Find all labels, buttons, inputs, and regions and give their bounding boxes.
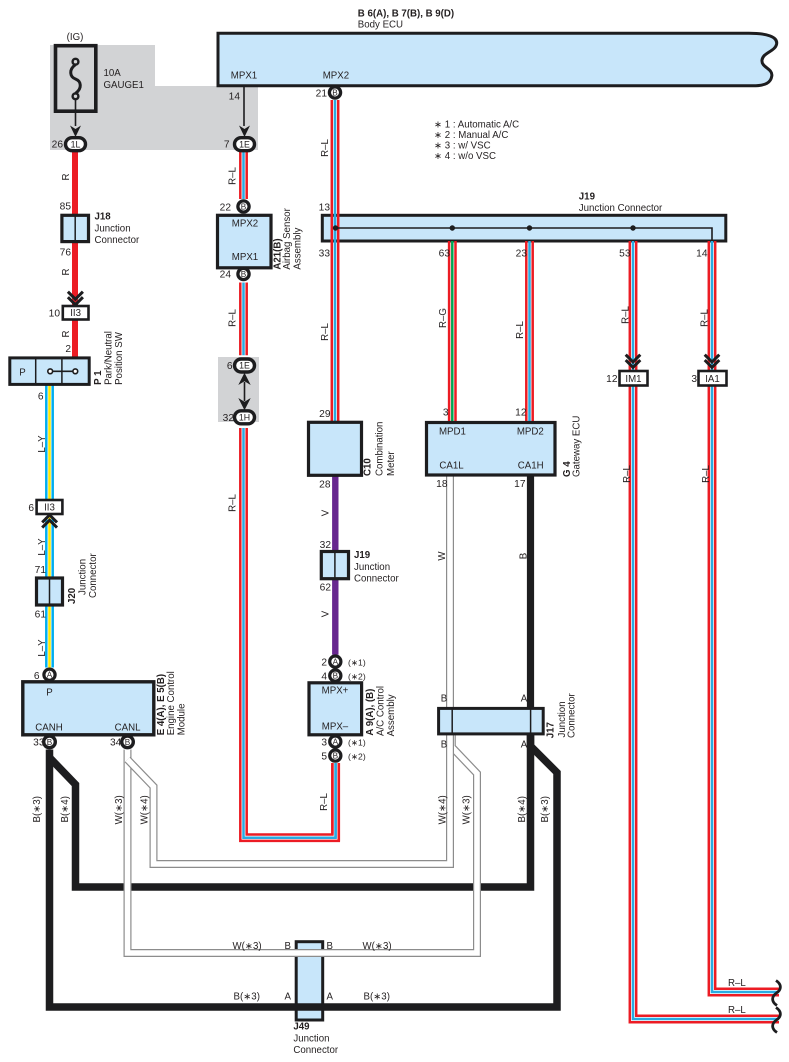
oval connector 1L — [66, 138, 86, 151]
svg-text:Meter: Meter — [386, 450, 397, 476]
a/c control assembly A9 box — [309, 683, 362, 735]
wire W gateway CA1L to J17 — [446, 476, 454, 708]
svg-text:Junction: Junction — [354, 562, 390, 573]
wire R-L J19 14 to IA1 — [709, 241, 715, 371]
svg-text:CA1L: CA1L — [439, 460, 464, 471]
svg-text:B: B — [327, 941, 333, 952]
svg-text:P: P — [46, 688, 52, 699]
svg-text:Junction Connector: Junction Connector — [579, 203, 663, 214]
svg-text:L–Y: L–Y — [37, 435, 48, 453]
svg-text:63: 63 — [439, 249, 451, 260]
svg-text:J49: J49 — [293, 1022, 310, 1033]
svg-text:R: R — [61, 331, 72, 338]
page break squiggle lower R-L — [773, 1008, 781, 1033]
svg-text:4: 4 — [321, 672, 327, 683]
page break squiggle upper R-L — [773, 981, 781, 1006]
junction dot 23 — [527, 225, 532, 230]
pin circle B body ECU 21 — [329, 87, 340, 98]
svg-text:B 6(A), B 7(B), B 9(D): B 6(A), B 7(B), B 9(D) — [358, 9, 454, 20]
wire R-L J19 23 to gateway MPD2 pin 12 — [526, 241, 532, 422]
svg-text:A: A — [521, 694, 528, 705]
wire R-L body ECU 21B through J19 to C10 pin 29 — [332, 100, 338, 422]
oval connector 1H — [235, 411, 255, 424]
svg-text:II3: II3 — [44, 503, 55, 514]
svg-text:21: 21 — [316, 88, 328, 99]
svg-text:B(∗3): B(∗3) — [32, 796, 43, 822]
junction connector J18 box — [62, 215, 89, 241]
svg-text:Module: Module — [177, 704, 188, 736]
double chevron down to II3 — [68, 292, 83, 305]
park/neutral position switch P1 box — [10, 358, 89, 385]
wire R-L airbag 24B to 1E — [240, 283, 246, 356]
svg-text:GAUGE1: GAUGE1 — [104, 80, 144, 91]
svg-text:33: 33 — [33, 738, 45, 749]
wire W(*3) ECM 34 via J49 to J17 — [128, 734, 478, 953]
svg-text:1H: 1H — [239, 413, 250, 423]
svg-text:W(∗4): W(∗4) — [140, 795, 151, 824]
svg-text:R–L: R–L — [701, 465, 712, 483]
svg-text:R–L: R–L — [728, 1005, 746, 1016]
svg-text:(∗2): (∗2) — [348, 752, 366, 762]
svg-text:26: 26 — [52, 140, 64, 151]
svg-text:Junction: Junction — [78, 559, 89, 595]
svg-text:A: A — [333, 738, 339, 747]
wire R J18 to II3 — [72, 242, 78, 305]
svg-text:W(∗3): W(∗3) — [233, 941, 262, 952]
svg-text:Connector: Connector — [293, 1045, 338, 1056]
pin circle B ECM 33 — [44, 736, 56, 748]
svg-text:B: B — [441, 740, 447, 751]
body ECU pin 14 lead — [243, 86, 245, 126]
svg-text:II3: II3 — [70, 308, 81, 319]
pin circle A ECM 6 — [44, 669, 55, 680]
arrowhead into 1E — [239, 126, 250, 138]
engine control module box — [23, 682, 154, 735]
wire R fuse to J18 — [72, 151, 78, 215]
junction dot 53 — [630, 225, 635, 230]
svg-text:23: 23 — [516, 249, 528, 260]
svg-text:Junction: Junction — [293, 1034, 329, 1045]
svg-text:∗ 3 : w/ VSC: ∗ 3 : w/ VSC — [434, 141, 491, 152]
arrowhead into 1L — [70, 126, 81, 138]
switch contacts — [53, 370, 73, 372]
svg-text:MPD1: MPD1 — [439, 427, 466, 438]
svg-text:A 9(A), (B): A 9(A), (B) — [365, 689, 376, 736]
oval connector 1E lower — [235, 359, 255, 372]
svg-text:J20: J20 — [67, 588, 78, 604]
svg-text:MPD2: MPD2 — [517, 427, 544, 438]
svg-text:Park/Neutral: Park/Neutral — [103, 331, 114, 385]
svg-text:3: 3 — [321, 738, 327, 749]
svg-text:6: 6 — [227, 361, 233, 372]
pin circle A a/c 3 — [330, 736, 341, 747]
svg-text:Assembly: Assembly — [292, 227, 303, 269]
connector II3 box — [63, 306, 89, 320]
svg-text:14: 14 — [696, 249, 708, 260]
svg-text:A: A — [521, 740, 528, 751]
svg-text:L–Y: L–Y — [37, 538, 48, 556]
svg-text:B(∗3): B(∗3) — [540, 796, 551, 822]
svg-text:R–L: R–L — [621, 306, 632, 324]
double chevron into IA1 — [705, 355, 720, 368]
wire R-L A/C assembly MPX- stub — [332, 763, 338, 841]
pin circle B ECM 34 — [122, 736, 134, 748]
svg-text:MPX1: MPX1 — [231, 71, 257, 82]
svg-text:28: 28 — [319, 480, 331, 491]
svg-text:R: R — [61, 269, 72, 276]
svg-text:MPX2: MPX2 — [232, 219, 258, 230]
wire R II3 to P/N switch — [72, 320, 78, 358]
svg-text:Position SW: Position SW — [114, 331, 125, 385]
svg-text:22: 22 — [220, 202, 232, 213]
wire L-Y II3 to J20 — [46, 517, 52, 578]
svg-text:Combination: Combination — [375, 422, 386, 476]
svg-text:∗ 1 : Automatic A/C: ∗ 1 : Automatic A/C — [434, 120, 519, 131]
combination meter C10 box — [309, 422, 362, 475]
svg-text:12: 12 — [606, 374, 618, 385]
svg-text:R–G: R–G — [438, 308, 449, 328]
svg-text:R–L: R–L — [320, 139, 331, 157]
svg-text:12: 12 — [515, 408, 527, 419]
svg-text:13: 13 — [319, 203, 331, 214]
svg-text:J19: J19 — [354, 550, 371, 561]
fuse element symbol — [71, 65, 81, 94]
svg-text:W(∗3): W(∗3) — [363, 941, 392, 952]
svg-text:1E: 1E — [239, 361, 250, 371]
double chevron into IM1 — [626, 355, 641, 368]
svg-text:V: V — [321, 610, 332, 617]
svg-text:(∗2): (∗2) — [348, 672, 366, 682]
svg-text:R–L: R–L — [320, 323, 331, 341]
svg-text:24: 24 — [220, 269, 232, 280]
svg-text:6: 6 — [34, 671, 40, 682]
svg-text:J19: J19 — [579, 192, 596, 203]
svg-text:62: 62 — [320, 583, 332, 594]
wire R-L IA1 down to right edge — [709, 386, 779, 996]
junction connector J49 (box) — [296, 942, 323, 1020]
svg-text:CA1H: CA1H — [518, 460, 544, 471]
svg-text:Connector: Connector — [88, 553, 99, 598]
svg-text:∗ 4 : w/o VSC: ∗ 4 : w/o VSC — [434, 151, 496, 162]
svg-text:IA1: IA1 — [705, 374, 720, 385]
svg-text:R–L: R–L — [228, 494, 239, 512]
svg-text:10A: 10A — [104, 68, 122, 79]
svg-text:6: 6 — [38, 392, 44, 403]
svg-text:1L: 1L — [71, 139, 81, 149]
svg-text:Junction: Junction — [95, 224, 131, 235]
svg-text:Assembly: Assembly — [386, 694, 397, 736]
svg-text:MPX2: MPX2 — [323, 71, 349, 82]
svg-text:B: B — [285, 941, 291, 952]
junction connector J19 (long box) — [322, 215, 726, 241]
svg-text:B: B — [519, 553, 530, 559]
arrow down into 1H — [238, 398, 250, 410]
svg-text:B: B — [47, 738, 53, 747]
svg-text:IM1: IM1 — [625, 374, 641, 385]
svg-text:P 1: P 1 — [93, 370, 104, 385]
svg-text:14: 14 — [229, 92, 241, 103]
svg-text:A/C Control: A/C Control — [376, 686, 387, 736]
svg-text:MPX–: MPX– — [322, 722, 349, 733]
svg-text:B: B — [333, 672, 339, 681]
svg-text:Connector: Connector — [354, 574, 399, 585]
svg-text:5: 5 — [321, 752, 327, 763]
svg-text:∗ 2 : Manual A/C: ∗ 2 : Manual A/C — [434, 130, 508, 141]
svg-text:32: 32 — [223, 413, 235, 424]
svg-text:A: A — [327, 992, 334, 1003]
svg-text:34: 34 — [110, 738, 122, 749]
svg-text:B(∗3): B(∗3) — [234, 992, 260, 1003]
wire R-L IM1 down to bottom right edge — [630, 386, 779, 1023]
J19 internal bus line — [336, 228, 713, 241]
svg-text:B: B — [332, 88, 338, 97]
svg-text:R–L: R–L — [515, 321, 526, 339]
wire R-L body ECU 1E to airbag 22B — [240, 152, 246, 200]
svg-text:32: 32 — [320, 540, 332, 551]
svg-text:A: A — [285, 992, 292, 1003]
svg-text:17: 17 — [514, 479, 526, 490]
fuse GAUGE1 box — [56, 46, 96, 112]
svg-text:(∗1): (∗1) — [348, 738, 366, 748]
pin circle B a/c 5 — [330, 750, 341, 761]
svg-text:Connector: Connector — [95, 235, 140, 246]
pin circle B airbag 22 — [238, 201, 249, 212]
svg-text:Body ECU: Body ECU — [358, 20, 403, 31]
svg-text:B(∗3): B(∗3) — [364, 992, 390, 1003]
body ECU B6/B7/B9 box — [218, 33, 777, 86]
wire B(*3) ECM 33 via J49 to J17 — [50, 734, 558, 1007]
svg-text:53: 53 — [619, 249, 631, 260]
svg-text:W: W — [437, 551, 448, 561]
svg-text:Connector: Connector — [567, 693, 578, 738]
svg-text:Engine Control: Engine Control — [166, 671, 177, 735]
junction connector J19 small box — [321, 552, 348, 579]
svg-text:18: 18 — [436, 479, 448, 490]
svg-text:85: 85 — [60, 202, 72, 213]
svg-text:2: 2 — [65, 344, 71, 355]
svg-text:C10: C10 — [363, 458, 374, 476]
wire L-Y P/N switch to II3 — [46, 384, 52, 500]
svg-text:A: A — [47, 671, 53, 680]
wire R-L J19 53 to IM1 — [630, 241, 636, 371]
svg-text:R–L: R–L — [700, 309, 711, 327]
oval connector 1E top — [235, 138, 255, 151]
svg-text:Gateway ECU: Gateway ECU — [572, 416, 583, 477]
arrow up into 1E — [238, 373, 250, 385]
svg-text:W(∗3): W(∗3) — [114, 795, 125, 824]
svg-text:2: 2 — [321, 658, 327, 669]
svg-text:(IG): (IG) — [67, 32, 84, 43]
junction dot 63 — [450, 225, 455, 230]
svg-text:71: 71 — [35, 565, 47, 576]
svg-text:7: 7 — [224, 140, 230, 151]
svg-text:R–L: R–L — [228, 309, 239, 327]
connector II3 box lower — [37, 500, 63, 514]
wire W(*4) ECM 34 branch to J17 — [128, 734, 451, 864]
svg-text:R–L: R–L — [622, 465, 633, 483]
airbag sensor assembly A21 box — [218, 215, 272, 267]
svg-text:76: 76 — [60, 248, 72, 259]
svg-text:R–L: R–L — [319, 793, 330, 811]
svg-text:B: B — [241, 202, 247, 211]
svg-text:B: B — [333, 752, 339, 761]
svg-text:3: 3 — [691, 374, 697, 385]
svg-text:A: A — [333, 658, 339, 667]
wire L-Y J20 to ECM pin 6 — [46, 605, 52, 668]
svg-text:33: 33 — [319, 249, 331, 260]
svg-text:1E: 1E — [239, 139, 250, 149]
svg-text:J17: J17 — [546, 722, 557, 738]
svg-text:R–L: R–L — [728, 978, 746, 989]
wire R-L long loop 1H to A/C assembly MPX- — [240, 428, 338, 841]
svg-text:MPX1: MPX1 — [232, 252, 258, 263]
svg-text:29: 29 — [319, 409, 331, 420]
gray panel around 1E/1H connectors — [218, 357, 259, 422]
pin circle B airbag 24 — [238, 268, 249, 279]
connector IM1 box — [620, 371, 648, 386]
junction connector J17 box — [439, 708, 544, 734]
svg-text:B: B — [441, 694, 447, 705]
double chevron up from II3 — [42, 515, 57, 528]
fuse output lead — [75, 99, 77, 126]
gateway ECU G4 box — [427, 423, 556, 476]
pin circle A a/c 2 — [330, 656, 341, 667]
svg-text:W(∗4): W(∗4) — [438, 795, 449, 824]
svg-text:W(∗3): W(∗3) — [462, 795, 473, 824]
wire R-G J19 63 to gateway MPD1 pin 3 — [449, 241, 455, 422]
svg-text:CANH: CANH — [35, 722, 62, 733]
connector IA1 box — [699, 371, 727, 386]
svg-text:6: 6 — [28, 503, 34, 514]
svg-text:3: 3 — [443, 408, 449, 419]
svg-text:61: 61 — [35, 610, 47, 621]
svg-text:B(∗4): B(∗4) — [60, 796, 71, 822]
junction dot 33 — [333, 225, 338, 230]
wire V J19 62 to A/C assembly MPX+ — [332, 579, 338, 655]
wire V C10 28 to J19 32 — [332, 475, 338, 552]
svg-text:MPX+: MPX+ — [322, 686, 349, 697]
pin circle B a/c 4 — [330, 670, 341, 681]
svg-text:(∗1): (∗1) — [348, 658, 366, 668]
svg-text:V: V — [321, 509, 332, 516]
wire B(*4) ECM 33 branch to J17 — [50, 734, 531, 887]
svg-text:B: B — [125, 738, 131, 747]
svg-text:R: R — [61, 174, 72, 181]
junction connector J20 box — [37, 578, 63, 605]
svg-text:P: P — [19, 368, 25, 379]
svg-text:CANL: CANL — [115, 722, 141, 733]
svg-text:L–Y: L–Y — [37, 639, 48, 657]
svg-text:B(∗4): B(∗4) — [517, 796, 528, 822]
svg-text:10: 10 — [49, 309, 61, 320]
svg-text:R–L: R–L — [228, 167, 239, 185]
gray panel top-left — [50, 45, 258, 150]
wire B gateway CA1H to J17 — [527, 476, 534, 708]
svg-text:J18: J18 — [95, 212, 112, 223]
svg-text:B: B — [241, 270, 247, 279]
